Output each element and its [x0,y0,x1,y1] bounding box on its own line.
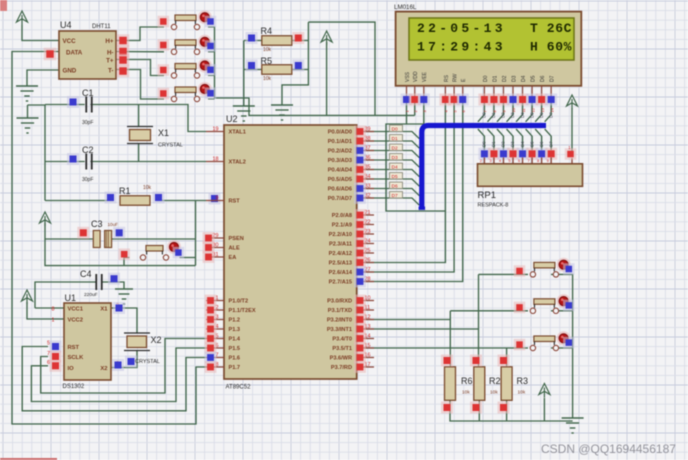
svg-text:D0: D0 [482,141,487,147]
wire buttons common column [208,27,415,115]
power flag A3 [567,95,578,109]
power flag A5 [539,384,550,398]
power flag A6 [40,212,51,226]
wire U1 IO loop [31,348,206,402]
wire H+ to button [116,27,164,41]
U4 DATA probe square [44,48,57,61]
wire E column to P2.7 [364,103,463,282]
RP1 pin state square 1 [488,148,500,160]
button SW3 dot [198,59,212,73]
RTC U1 DS1302 body [64,303,111,380]
RP1 pin state square 0 [478,148,490,160]
wire T- to button [116,70,164,100]
svg-text:D7: D7 [548,141,553,147]
svg-text:RST: RST [68,345,80,351]
wire C3 net [45,223,93,239]
wire LCD VSS net [386,103,445,211]
svg-text:P1.2: P1.2 [229,318,241,324]
wire LCD D3 to bus [507,103,514,122]
wire R4 R5 left tie to ground [243,41,245,107]
RP1 pin state square 7 [545,148,557,160]
button SW5 [530,262,558,277]
ground near C4 [115,289,133,304]
svg-text:P2.7/A15: P2.7/A15 [329,280,352,286]
svg-text:D2: D2 [502,75,508,82]
svg-text:VDD: VDD [413,71,419,82]
wire bus to RP1 pin D0 [478,129,485,150]
svg-text:D4: D4 [392,164,398,170]
capacitor C4 [96,274,102,290]
resistor pack RP1 body [478,164,583,187]
svg-text:10k: 10k [263,76,272,82]
wire LCD VEE down [407,103,424,124]
button SW3 probe [158,64,170,76]
wire R4 right lead [292,40,309,42]
U1 state squares [50,341,62,353]
svg-text:XTAL1: XTAL1 [229,130,246,136]
svg-text:19: 19 [213,127,219,133]
svg-text:P0.1/AD1: P0.1/AD1 [328,139,352,145]
button SW2 dot [198,35,212,49]
reset button probe [118,248,130,260]
svg-text:H+: H+ [105,38,113,45]
button SW4 probe [158,88,170,100]
svg-text:10: 10 [511,107,516,112]
svg-text:RS: RS [444,74,450,82]
svg-text:D1: D1 [392,136,398,142]
svg-text:RST: RST [229,199,241,205]
button SW7 [530,336,558,351]
wire LCD D6 to bus [535,103,542,122]
svg-text:D7: D7 [392,193,398,199]
svg-text:VCC1: VCC1 [68,307,84,313]
R4 state squares [246,32,258,44]
ground second left [17,118,39,133]
svg-text:P0.3/AD3: P0.3/AD3 [328,158,352,164]
svg-text:C1: C1 [82,88,94,98]
wire LCD D1 to bus [487,103,494,122]
button reset [140,246,168,261]
button SW1 probe [158,16,170,28]
wire XTAL2 net [44,105,46,201]
C1 probe square [67,96,79,108]
wire U1 X1 to crystal X2 [111,308,137,333]
svg-text:DHT11: DHT11 [92,24,111,30]
wire A4 stem to VCC2 [27,302,64,319]
power flag top-left [17,11,28,25]
svg-text:C3: C3 [91,219,103,229]
svg-text:U2: U2 [226,114,238,124]
svg-text:D2: D2 [392,145,398,151]
svg-text:P1.7: P1.7 [229,365,241,371]
resistor R5 [262,65,292,75]
svg-text:RESPACK-8: RESPACK-8 [478,203,509,209]
C4 probe square [108,273,120,285]
svg-text:SCLK: SCLK [68,355,85,361]
SW5 dot [557,258,571,272]
svg-text:P3.3/INT1: P3.3/INT1 [327,327,352,333]
wire A5 stem [543,398,545,421]
wire P0.7 to bus entry D7 [364,198,419,205]
svg-text:PSEN: PSEN [229,236,244,242]
svg-text:P0.4/AD4: P0.4/AD4 [328,168,353,174]
RP1 pin state square 2 [497,148,509,160]
wire R5 right lead [292,69,309,71]
svg-text:X2: X2 [151,335,162,345]
C3 probe squares [77,227,89,239]
svg-text:D4: D4 [521,75,527,82]
svg-text:D0: D0 [483,75,489,82]
svg-text:R6: R6 [461,376,473,386]
wire R4 R5 right to ground [282,22,308,105]
svg-text:R1: R1 [119,186,131,196]
svg-text:D2: D2 [501,141,506,147]
svg-text:22-05-13: 22-05-13 [417,21,506,36]
svg-text:CRYSTAL: CRYSTAL [158,143,183,149]
wire A2 stem [326,42,328,115]
wire C4 net [35,282,96,308]
wire bus to RP1 pin D3 [507,129,514,150]
ground near U4 [16,86,38,101]
svg-text:P1.1/T2EX: P1.1/T2EX [229,308,256,314]
svg-text:AT89C52: AT89C52 [226,385,252,391]
svg-text:CRYSTAL: CRYSTAL [135,359,160,365]
svg-text:P1.0/T2: P1.0/T2 [229,299,249,305]
R2 state squares [470,355,482,367]
svg-text:P3.0/RXD: P3.0/RXD [327,299,352,305]
wire drop to R3 [506,348,508,367]
svg-text:R5: R5 [261,56,273,66]
LCD pin state squares [401,94,413,106]
button SW1 top [171,15,199,30]
resistor R2 [474,367,485,401]
wire bus to RP1 pin D4 [516,129,523,150]
svg-text:RW: RW [453,73,459,82]
SW7 probe [514,339,526,351]
svg-text:C2: C2 [82,145,94,155]
svg-text:H 60%: H 60% [530,40,572,55]
svg-text:IO: IO [68,366,75,372]
reset button dot [167,240,181,254]
svg-text:17:29:43: 17:29:43 [417,40,506,55]
svg-text:P3.1/TXD: P3.1/TXD [328,308,352,314]
MCU right state squares P0 [354,126,366,138]
wire LCD D0 to bus [478,103,485,122]
SW7 dot [557,331,571,345]
svg-text:U1: U1 [65,293,77,303]
svg-text:P3.2/INT0: P3.2/INT0 [327,318,352,324]
MCU left pin stubs [206,131,224,133]
sensor U4 DHT11 body [59,31,116,79]
svg-text:VCC: VCC [63,38,77,45]
svg-text:P3.4/T0: P3.4/T0 [332,337,352,343]
svg-text:D3: D3 [392,155,398,161]
svg-text:D5: D5 [531,75,537,82]
wire H- to button [116,51,164,53]
wire bus to RP1 pin D6 [535,129,542,150]
wire U1 RST loop [22,347,206,411]
resistor R4 [262,36,292,46]
svg-text:D7: D7 [550,75,556,82]
R5 state squares [246,60,258,72]
power flag A4 [22,290,33,304]
svg-text:10k: 10k [143,185,152,191]
button SW2 [171,40,199,55]
button SW3 [171,64,199,79]
R6 state squares [441,355,453,367]
MCU U2 AT89C52 body [224,125,357,379]
svg-text:P2.4/A12: P2.4/A12 [329,251,352,257]
button SW4 [171,87,199,102]
wire RST net [45,200,114,202]
wire VCC rail top [308,22,375,115]
svg-text:8: 8 [52,307,55,313]
svg-text:P0.6/AD6: P0.6/AD6 [328,187,352,193]
svg-text:P1.4: P1.4 [229,337,241,343]
svg-text:P0.2/AD2: P0.2/AD2 [328,149,352,155]
wire RW column to P2.6 [364,103,454,272]
svg-text:T 26C: T 26C [530,21,572,36]
jpeg artifact bottom-left red line [0,458,57,460]
wire RS column to P2.5 [364,103,445,263]
MCU PSEN ALE EA squares [203,232,215,244]
svg-text:10k: 10k [263,47,272,53]
wire A3 stem to RP1 pin1 [571,108,573,151]
svg-text:ALE: ALE [229,246,240,252]
svg-text:T-: T- [108,68,114,75]
RP1 pin state square 4 [517,148,529,160]
MCU right state squares P3 [354,295,366,307]
wire RP1 pin1 stub [571,158,573,164]
wire buttons right to ground column [551,274,573,418]
wire bus to RP1 pin D2 [497,129,504,150]
wire P0.4 to bus entry D4 [364,170,419,177]
wire P0.0 to bus entry D0 [364,132,419,139]
wire P0.3 to bus entry D3 [364,160,419,167]
wire XTAL1 net [28,104,46,107]
svg-text:12: 12 [530,107,535,112]
wire LCD D5 to bus [526,103,533,122]
wire VCC to U4 [22,25,59,41]
resistor R6 [445,367,456,401]
svg-text:P0.5/AD5: P0.5/AD5 [328,177,352,183]
svg-text:13: 13 [540,107,545,112]
svg-text:P2.3/A11: P2.3/A11 [329,242,352,248]
svg-text:DS1302: DS1302 [63,384,85,390]
RP1 pin state square 3 [507,148,519,160]
capacitor C2 [86,154,92,170]
svg-text:D1: D1 [492,75,498,82]
svg-text:10uF: 10uF [108,222,119,227]
RP1 pin state square 6 [536,148,548,160]
svg-text:T+: T+ [106,58,114,65]
svg-text:P2.0/A8: P2.0/A8 [332,213,352,219]
svg-text:U4: U4 [60,20,72,30]
resistor R1 [120,196,150,206]
wire LCD VDD to VCC [414,103,416,115]
svg-text:X1: X1 [158,128,169,138]
button SW2 probe [158,39,170,51]
wire P3.5 to button 7 [364,347,528,349]
svg-text:P3.6/WR: P3.6/WR [330,356,352,362]
svg-text:P1.3: P1.3 [229,327,241,333]
MCU left state squares P1 [205,295,217,307]
svg-text:14: 14 [549,107,554,112]
wire U1 VCC1 [35,307,64,309]
svg-text:RP1: RP1 [478,190,496,201]
svg-text:P2.1/A9: P2.1/A9 [332,223,352,229]
RP1 pin1 state square [565,148,577,160]
svg-text:X2: X2 [100,366,107,372]
MCU right state squares P2 [354,209,366,221]
svg-text:10k: 10k [462,390,470,396]
svg-text:P0.7/AD7: P0.7/AD7 [328,196,352,202]
U4 right pin state squares [117,34,130,47]
R3 state squares [498,355,510,367]
wire bus to RP1 pin D7 [545,129,552,150]
svg-text:P1.5: P1.5 [229,346,241,352]
power flag A2 [321,31,332,45]
svg-text:DATA: DATA [66,50,83,57]
capacitor C1 [86,97,92,113]
C2 probe square [67,153,79,165]
wire P3.3 to button 5 [364,328,479,330]
svg-text:D6: D6 [392,183,398,189]
MCU right pin stubs [357,131,374,133]
wire P0.2 to bus entry D2 [364,151,419,158]
resistor R3 [501,367,512,401]
ground below R4 R5 left [233,106,255,121]
svg-text:P3.5/T1: P3.5/T1 [332,346,352,352]
svg-text:P1.6: P1.6 [229,356,241,362]
svg-text:P2.6/A14: P2.6/A14 [329,270,353,276]
svg-text:R3: R3 [517,376,529,386]
wire U1 SCLK loop [41,339,206,394]
SW6 probe [514,302,526,314]
wire P0.6 to bus entry D6 [364,189,419,196]
svg-text:D5: D5 [529,141,534,147]
SW6 dot [557,294,571,308]
wire P3.2 to button 6 [364,319,450,321]
svg-text:10k: 10k [518,390,526,396]
svg-text:1: 1 [52,318,55,324]
svg-text:30pF: 30pF [82,120,93,126]
R1 state squares [105,192,117,204]
bus main blue [422,126,546,210]
svg-text:X1: X1 [100,307,108,313]
SW5 probe [514,265,526,277]
button SW6 [530,299,558,314]
wire bus to RP1 pin D5 [526,129,533,150]
svg-text:D5: D5 [392,174,398,180]
wire bus to RP1 pin D1 [487,129,494,150]
svg-text:18: 18 [213,157,219,163]
svg-text:VSS: VSS [405,71,411,82]
svg-text:H-: H- [107,50,114,57]
LCD LM016L body [396,12,582,86]
svg-text:D0: D0 [392,126,398,132]
wire U4 GND [27,70,59,86]
wire LCD D2 to bus [497,103,504,122]
svg-text:VEE: VEE [422,71,428,82]
svg-text:10k: 10k [490,390,498,396]
button SW4 dot [198,82,212,96]
svg-text:XTAL2: XTAL2 [229,160,246,166]
svg-text:P2.5/A13: P2.5/A13 [329,261,352,267]
svg-text:D1: D1 [491,141,496,147]
wire X2 to U1 [111,351,137,368]
svg-text:9: 9 [216,196,219,202]
svg-text:LM016L: LM016L [394,4,417,11]
RP1 pin state square 5 [526,148,538,160]
wire bottom rail to ground [450,400,573,421]
svg-text:220uF: 220uF [84,292,98,298]
svg-text:R4: R4 [261,26,273,36]
LCD screen [409,18,574,60]
wire U4 DATA net [12,52,206,425]
wire P0.5 to bus entry D5 [364,179,419,186]
svg-text:D6: D6 [539,141,544,147]
LCD pin stubs [406,86,408,96]
svg-text:30pF: 30pF [82,177,93,183]
svg-text:D3: D3 [511,75,517,82]
wire P0.1 to bus entry D1 [364,141,419,148]
wire LCD D4 to bus [516,103,523,122]
wire reset button row [45,239,196,266]
ground bottom right [562,418,584,433]
svg-text:D6: D6 [540,75,546,82]
svg-text:CSDN @QQ1694456187: CSDN @QQ1694456187 [541,442,676,456]
svg-text:R2: R2 [489,376,501,386]
svg-text:EA: EA [229,255,237,261]
button SW1 dot [198,10,212,24]
capacitor C3 electrolytic [93,231,100,248]
svg-text:VCC2: VCC2 [68,318,83,324]
svg-text:C4: C4 [80,269,92,279]
wire T+ to button [116,60,164,76]
crystal X1 [127,127,153,144]
svg-text:P2.2/A10: P2.2/A10 [329,232,352,238]
svg-text:P0.0/AD0: P0.0/AD0 [328,130,352,136]
svg-text:D4: D4 [520,141,525,147]
wire LCD D7 to bus [545,103,552,122]
svg-text:GND: GND [63,68,77,75]
crystal X2 [124,333,150,351]
svg-text:D3: D3 [510,141,515,147]
wire X1 stems [138,105,140,127]
jpeg artifact top-left [0,0,7,11]
ground near R5 [271,105,293,120]
svg-text:P3.7/RD: P3.7/RD [331,365,352,371]
